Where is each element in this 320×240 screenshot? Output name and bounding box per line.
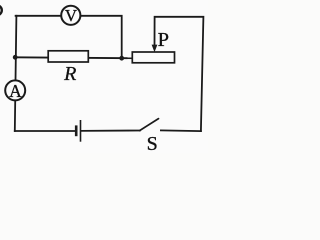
wire rheostat slider up and across to right vertical <box>155 17 204 131</box>
wire top horizontal and down to node <box>16 16 122 58</box>
svg-text:S: S <box>147 133 158 153</box>
rheostat (potentiometer) P <box>132 29 174 63</box>
svg-text:R: R <box>63 63 76 85</box>
slider arrowhead <box>152 45 158 53</box>
wire bottom-left to battery <box>15 130 75 132</box>
wire left vertical <box>15 16 17 131</box>
svg-text:V: V <box>65 6 77 25</box>
svg-text:P: P <box>158 29 169 51</box>
svg-text:A: A <box>9 81 22 101</box>
wire battery to switch <box>81 130 140 132</box>
switch S lever <box>140 119 159 155</box>
voltmeter U-V <box>61 6 80 26</box>
node junction dot left <box>13 55 18 60</box>
wire middle horizontal row <box>15 56 133 59</box>
resistor R <box>48 51 88 85</box>
ammeter A <box>5 80 25 101</box>
wire switch to bottom-right corner <box>161 129 201 132</box>
battery cell <box>76 120 80 142</box>
circled number fragment at left edge <box>0 5 2 15</box>
node junction dot right <box>119 56 124 61</box>
